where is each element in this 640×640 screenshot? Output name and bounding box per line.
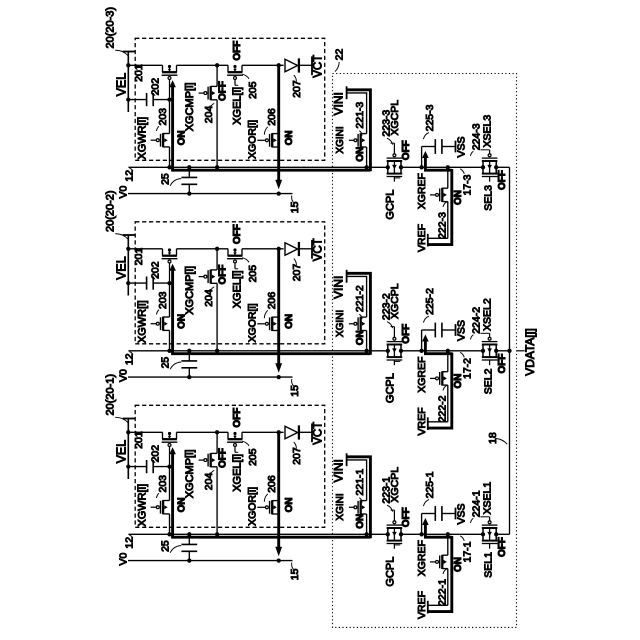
svg-text:XGWR[i]: XGWR[i] [137,300,149,343]
svg-text:18: 18 [487,432,499,444]
svg-text:VEL: VEL [115,440,129,464]
svg-text:12: 12 [123,537,135,549]
svg-text:203: 203 [157,291,169,309]
svg-text:225-2: 225-2 [424,288,436,315]
svg-text:ON: ON [176,497,187,512]
svg-text:OFF: OFF [401,507,412,527]
svg-text:GCPL: GCPL [384,190,396,220]
svg-text:201: 201 [133,431,145,449]
svg-text:25: 25 [160,540,172,552]
svg-text:VSS: VSS [456,136,468,157]
svg-text:ON: ON [284,497,295,512]
svg-text:XSEL1: XSEL1 [482,482,494,515]
svg-text:201: 201 [133,248,145,266]
svg-text:OFF: OFF [401,324,412,344]
svg-text:207: 207 [291,80,303,98]
svg-text:VSS: VSS [456,320,468,341]
svg-text:VCT: VCT [313,238,325,261]
svg-text:XGINI: XGINI [335,310,346,337]
svg-text:ON: ON [176,314,187,329]
svg-text:V0: V0 [117,369,129,382]
svg-text:12: 12 [123,170,135,182]
svg-text:SEL3: SEL3 [483,185,495,211]
svg-text:202: 202 [150,78,162,96]
svg-text:204: 204 [203,473,215,491]
svg-text:OFF: OFF [232,408,243,428]
svg-text:VREF: VREF [416,224,428,252]
svg-text:12: 12 [123,353,135,365]
svg-text:XGEL[i]: XGEL[i] [231,87,243,125]
svg-text:OFF: OFF [218,448,229,468]
svg-text:XGCPL: XGCPL [389,100,401,136]
svg-text:V0: V0 [117,185,129,198]
svg-text:GCPL: GCPL [384,373,396,403]
svg-text:205: 205 [247,265,259,283]
svg-text:17-3: 17-3 [461,174,473,195]
svg-text:XSEL2: XSEL2 [482,298,494,331]
svg-text:VCT: VCT [313,422,325,445]
svg-text:VCT: VCT [313,55,325,78]
svg-text:OFF: OFF [232,41,243,61]
svg-text:SEL1: SEL1 [483,552,495,578]
svg-text:XGINI: XGINI [335,493,346,520]
svg-text:XGCMP[i]: XGCMP[i] [184,449,196,498]
svg-text:205: 205 [247,448,259,466]
svg-text:ON: ON [284,130,295,145]
svg-text:202: 202 [150,445,162,463]
svg-text:GCPL: GCPL [384,557,396,587]
svg-text:ON: ON [355,330,366,345]
svg-text:XGOR[i]: XGOR[i] [246,120,258,159]
svg-text:203: 203 [157,108,169,126]
svg-text:20(20-3): 20(20-3) [104,7,116,49]
svg-text:VINI: VINI [332,276,346,299]
svg-text:204: 204 [203,106,215,124]
svg-text:17-2: 17-2 [461,358,473,379]
svg-text:XGEL[i]: XGEL[i] [231,454,243,492]
svg-text:V0: V0 [117,552,129,565]
svg-text:OFF: OFF [401,140,412,160]
svg-text:206: 206 [266,475,278,493]
svg-text:20(20-1): 20(20-1) [104,374,116,416]
svg-text:XGCMP[i]: XGCMP[i] [184,266,196,315]
svg-text:201: 201 [133,64,145,82]
svg-text:221-1: 221-1 [354,469,366,496]
svg-text:22: 22 [334,49,346,61]
svg-text:222-3: 222-3 [437,212,449,239]
svg-text:15: 15 [289,201,301,213]
svg-text:205: 205 [247,81,259,99]
svg-text:XGOR[i]: XGOR[i] [246,487,258,526]
svg-text:206: 206 [266,292,278,310]
svg-text:ON: ON [284,314,295,329]
svg-text:VINI: VINI [332,459,346,482]
svg-text:207: 207 [291,447,303,465]
svg-text:17-1: 17-1 [461,541,473,562]
svg-text:225-1: 225-1 [424,471,436,498]
svg-text:VINI: VINI [332,92,346,115]
svg-text:XGWR[i]: XGWR[i] [137,117,149,160]
svg-text:OFF: OFF [218,265,229,285]
svg-text:221-3: 221-3 [354,102,366,129]
svg-text:XGEL[i]: XGEL[i] [231,270,243,308]
svg-text:OFF: OFF [497,537,508,557]
svg-text:XGREF: XGREF [416,173,428,209]
svg-text:ON: ON [355,514,366,529]
svg-text:25: 25 [160,173,172,185]
svg-text:203: 203 [157,475,169,493]
svg-text:25: 25 [160,357,172,369]
svg-text:VEL: VEL [115,256,129,280]
svg-text:XGOR[i]: XGOR[i] [246,303,258,342]
svg-text:XGREF: XGREF [416,540,428,576]
svg-text:VREF: VREF [416,591,428,619]
svg-text:VREF: VREF [416,407,428,435]
svg-text:225-3: 225-3 [424,104,436,131]
svg-text:221-2: 221-2 [354,285,366,312]
svg-text:VSS: VSS [456,503,468,524]
svg-text:202: 202 [150,261,162,279]
svg-text:OFF: OFF [232,224,243,244]
svg-text:OFF: OFF [497,170,508,190]
svg-text:VEL: VEL [115,73,129,97]
svg-text:XGCPL: XGCPL [389,283,401,319]
svg-text:OFF: OFF [497,354,508,374]
svg-text:207: 207 [291,264,303,282]
svg-text:15: 15 [289,385,301,397]
svg-text:XGCPL: XGCPL [389,467,401,503]
svg-text:VDATA[j]: VDATA[j] [523,328,537,376]
svg-text:SEL2: SEL2 [483,368,495,394]
svg-text:XGREF: XGREF [416,357,428,393]
svg-text:206: 206 [266,108,278,126]
svg-text:XGINI: XGINI [335,126,346,153]
svg-text:XGWR[i]: XGWR[i] [137,484,149,527]
svg-text:222-1: 222-1 [437,579,449,606]
svg-text:XGCMP[i]: XGCMP[i] [184,82,196,131]
svg-text:20(20-2): 20(20-2) [104,190,116,232]
svg-text:ON: ON [176,130,187,145]
svg-text:222-2: 222-2 [437,395,449,422]
svg-text:ON: ON [355,147,366,162]
svg-text:OFF: OFF [218,81,229,101]
svg-text:XSEL3: XSEL3 [482,115,494,148]
svg-text:204: 204 [203,289,215,307]
svg-text:15: 15 [289,568,301,580]
